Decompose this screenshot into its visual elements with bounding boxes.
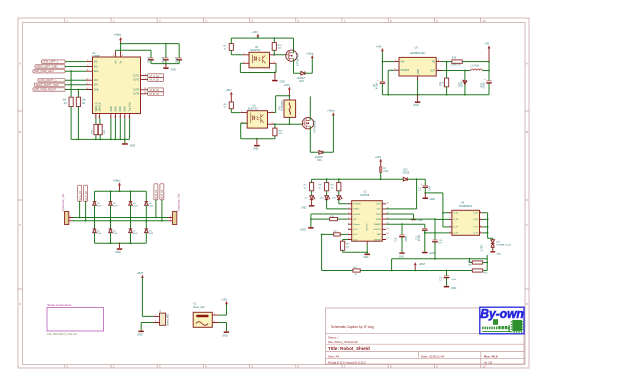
svg-text:1: 1: [241, 111, 242, 113]
svg-text:S_P2: S_P2: [453, 233, 459, 235]
svg-text:3: 3: [272, 123, 273, 125]
ground: [424, 193, 426, 197]
svg-text:GND: GND: [115, 251, 121, 254]
svg-text:STP36NF06: STP36NF06: [314, 119, 316, 133]
svg-text:CN3768: CN3768: [360, 194, 370, 197]
svg-text:PWM: PWM: [376, 219, 381, 221]
svg-text:OUT: OUT: [430, 70, 435, 72]
svg-text:EnA: EnA: [94, 70, 99, 73]
svg-text:10uF: 10uF: [429, 185, 431, 191]
capacitor C3: [177, 57, 182, 59]
junction: [366, 251, 368, 253]
svg-text:CHRG: CHRG: [353, 209, 359, 211]
svg-text:8: 8: [348, 238, 349, 240]
junction dots on rail: [78, 139, 80, 141]
ground: [422, 252, 427, 254]
ground: [119, 243, 121, 248]
connector J1: [65, 212, 69, 225]
svg-text:4: 4: [272, 111, 273, 113]
svg-text:R13: R13: [452, 57, 457, 59]
svg-text:1: 1: [145, 74, 146, 76]
junction: [442, 212, 444, 214]
svg-text:+BAT: +BAT: [419, 262, 426, 266]
svg-text:M_B_02: M_B_02: [160, 189, 164, 199]
resistor R9: [338, 179, 340, 182]
U3 gnd pin: [417, 76, 419, 80]
wire: [218, 304, 226, 315]
shunt resistor R3: [94, 124, 98, 134]
svg-text:FDS6690CZ: FDS6690CZ: [459, 205, 473, 208]
U1 top pins: [115, 51, 120, 57]
resistor R8: [326, 179, 328, 182]
wire: [230, 38, 232, 44]
wire top rail: [121, 44, 180, 58]
svg-text:Date: 2018-11-04: Date: 2018-11-04: [421, 354, 444, 358]
left edge row ticks: [18, 111, 23, 289]
junction: [434, 258, 436, 260]
svg-text:A: A: [526, 62, 528, 66]
global label M_A_02: [148, 78, 164, 82]
bottom rail wire: [95, 233, 147, 244]
connector J2: [173, 212, 177, 225]
BLOCK-CHARGER: [300, 155, 511, 290]
junction: [256, 138, 258, 140]
svg-text:D_P1: D_P1: [473, 227, 479, 229]
wire: [382, 51, 394, 81]
svg-text:1: 1: [449, 211, 450, 213]
ground: [138, 331, 143, 333]
wire: [96, 119, 100, 125]
BLOCK-BOTTOM: [47, 271, 229, 337]
BLOCK-OPTO1: [224, 30, 315, 84]
U1 bottom pin names: [95, 102, 132, 112]
svg-text:GND: GND: [418, 69, 420, 74]
power flag +24V: [379, 159, 382, 162]
junction dots: [326, 178, 328, 180]
wire row3 to gnd: [311, 214, 348, 227]
svg-text:4148: 4148: [149, 233, 153, 235]
wire: [323, 116, 334, 153]
svg-text:4148: 4148: [113, 233, 117, 235]
junction: [273, 54, 275, 56]
svg-text:3: 3: [348, 213, 349, 215]
diode D5: [95, 218, 147, 229]
power flag +VBus: [118, 182, 121, 185]
svg-text:M_B_01: M_B_01: [154, 189, 158, 199]
svg-text:CON_LEFT_1: CON_LEFT_1: [43, 61, 59, 64]
wire: [343, 250, 368, 252]
resistor R7: [310, 183, 314, 191]
svg-text:M_A_01: M_A_01: [150, 75, 160, 78]
wire: [65, 61, 87, 63]
svg-text:1: 1: [395, 60, 396, 62]
BLOCK-BRIDGE: [62, 179, 181, 254]
power flag +15V: [230, 92, 233, 95]
svg-text:POWER: POWER: [353, 204, 361, 206]
resistor R5: [229, 44, 233, 51]
U5 pins: [243, 55, 276, 64]
wire led D11 to pin: [339, 200, 348, 204]
motor rail 2: [73, 220, 168, 222]
wire pin4 up: [274, 96, 289, 113]
svg-text:14: 14: [144, 92, 146, 94]
svg-text:D15: D15: [299, 80, 304, 83]
svg-text:L1 47uH: L1 47uH: [470, 66, 479, 68]
vertical global label M_B_02: [160, 184, 164, 200]
svg-text:4: 4: [348, 218, 349, 220]
svg-text:C11: C11: [419, 186, 421, 191]
svg-text:Suspension_Ball: Suspension_Ball: [178, 193, 181, 211]
junction: [464, 70, 466, 72]
svg-text:5: 5: [480, 231, 481, 233]
svg-text:2: 2: [214, 321, 215, 323]
svg-text:GND: GND: [171, 68, 177, 71]
ground: [224, 331, 229, 333]
svg-text:+15V: +15V: [221, 297, 227, 301]
svg-text:4148: 4148: [133, 233, 137, 235]
U1 left pins: [87, 62, 93, 90]
inductor L1: [471, 69, 483, 70]
power flag +VBus: [332, 112, 335, 115]
svg-text:D_N1: D_N1: [473, 213, 479, 215]
wire: [274, 50, 286, 55]
svg-text:VCC: VCC: [377, 209, 382, 211]
svg-text:SENS_LEFT_GND: SENS_LEFT_GND: [36, 66, 57, 69]
svg-text:2: 2: [438, 69, 439, 71]
ground: [444, 286, 449, 288]
led D14 bicolor: [491, 240, 495, 251]
top rail wire: [95, 191, 147, 201]
shunt resistor R4: [98, 124, 102, 134]
svg-text:+24V: +24V: [283, 83, 289, 87]
U1 out pins: [141, 76, 147, 94]
svg-text:C15: C15: [396, 237, 398, 242]
global label M_B_01: [148, 88, 164, 92]
resistor R14: [470, 259, 473, 263]
svg-text:M_B_01: M_B_01: [150, 89, 160, 92]
svg-text:TVR10471: TVR10471: [282, 99, 284, 111]
vertical global label M_A_01: [78, 185, 82, 201]
svg-text:GND: GND: [363, 256, 369, 259]
wire: [141, 323, 153, 331]
ground on STAT row: [386, 214, 414, 219]
junction: [434, 218, 436, 220]
fuse F1: [380, 167, 382, 173]
wire U4 pin3: [443, 226, 449, 228]
U3 pins: [394, 62, 442, 71]
optocoupler U5 body: [249, 52, 270, 68]
K1 pins: [212, 315, 218, 322]
junction: [165, 43, 167, 45]
regulator U3 body: [399, 57, 436, 76]
wire source: [294, 59, 301, 74]
svg-text:SS210: SS210: [402, 173, 410, 175]
U4 right pins: [480, 213, 483, 233]
svg-text:470uF: 470uF: [419, 234, 421, 241]
svg-text:SENS_RIGHT_GND: SENS_RIGHT_GND: [36, 84, 59, 87]
svg-text:9: 9: [122, 55, 123, 57]
svg-text:4148: 4148: [149, 206, 153, 208]
top rail wire: [231, 37, 293, 39]
wire source: [310, 126, 319, 152]
U1 right pin names: [133, 76, 140, 96]
capacitor C1: [149, 57, 154, 59]
diode D7: [129, 229, 133, 233]
svg-text:Title: Robot_Shield: Title: Robot_Shield: [328, 346, 370, 351]
svg-text:+VIN: +VIN: [376, 44, 382, 48]
svg-text:SENS_A: SENS_A: [95, 102, 98, 112]
junction dots: [487, 219, 489, 221]
wire: [231, 50, 243, 55]
svg-text:4148: 4148: [133, 206, 137, 208]
junction: [70, 70, 72, 72]
svg-text:RV1: RV1: [279, 105, 281, 110]
svg-text:470uF: 470uF: [377, 82, 379, 89]
svg-text:D_P2: D_P2: [473, 233, 479, 235]
junction dots: [110, 190, 112, 192]
svg-text:S_N1: S_N1: [453, 213, 459, 215]
led D9: [311, 191, 313, 196]
wire: [155, 200, 157, 218]
svg-text:1: 1: [214, 314, 215, 316]
U1 bottom pin numbers: [95, 116, 131, 118]
U4 pin names: [453, 213, 459, 235]
diode D8: [145, 229, 149, 233]
svg-text:GND: GND: [125, 106, 127, 111]
diode D2: [109, 202, 113, 206]
svg-text:5: 5: [395, 69, 396, 71]
svg-text:GND: GND: [115, 106, 117, 111]
svg-text:SPD_PWM_RIGHT: SPD_PWM_RIGHT: [34, 89, 56, 92]
wire: [288, 117, 290, 124]
svg-text:VIN: VIN: [353, 219, 357, 221]
wire ON/OFF: [388, 70, 394, 95]
svg-text:1: 1: [348, 202, 349, 204]
wire: [446, 87, 448, 95]
svg-text:FB: FB: [432, 62, 435, 64]
capacitor C13: [422, 227, 427, 229]
FB wire: [442, 61, 452, 63]
wire cap bottoms: [151, 60, 179, 64]
svg-text:22uF: 22uF: [451, 279, 457, 281]
capacitor C11: [424, 179, 426, 185]
wire: [305, 58, 312, 73]
wire: [71, 107, 78, 140]
wire: [231, 109, 240, 113]
power flag +BAT: [141, 275, 144, 278]
svg-text:2: 2: [95, 116, 96, 118]
junction: [424, 232, 426, 234]
wire: [257, 136, 275, 139]
ground: [417, 95, 419, 102]
junction: [273, 37, 275, 39]
junction: [289, 95, 291, 97]
junction: [274, 123, 276, 125]
motor rail 1: [73, 217, 168, 219]
svg-text:Timer: Timer: [353, 239, 358, 241]
junction: [391, 270, 393, 272]
svg-text:OUT3: OUT3: [133, 90, 140, 92]
relay K1 body: [193, 312, 212, 327]
wire: [464, 85, 466, 95]
svg-text:+VBus: +VBus: [114, 33, 122, 37]
svg-text:Rev: V0.9: Rev: V0.9: [484, 354, 498, 358]
junction: [446, 61, 448, 63]
junction: [310, 218, 312, 220]
svg-text:Schematic Capture by JF xlog: Schematic Capture by JF xlog: [331, 325, 374, 329]
U2 gnd stem: [366, 241, 368, 244]
power flag +VBus: [119, 37, 122, 40]
svg-text:1: 1: [70, 219, 71, 221]
svg-text:3: 3: [145, 78, 146, 80]
svg-text:File: PROJECT_CON.sch: File: PROJECT_CON.sch: [47, 332, 77, 336]
resistor R16: [274, 124, 276, 128]
svg-text:+VBus: +VBus: [306, 51, 314, 55]
svg-text:PGSMB-COLA: PGSMB-COLA: [496, 244, 511, 247]
charger IC U2 body: [352, 201, 383, 242]
svg-text:Top_Pad: Top_Pad: [130, 102, 132, 112]
top rail wire: [312, 179, 426, 182]
wire R12 tap: [446, 62, 448, 79]
svg-text:1: 1: [244, 53, 245, 55]
wire opto bottom loop: [240, 63, 276, 72]
svg-text:By-own: By-own: [480, 307, 524, 321]
capacitor C8: [380, 80, 385, 82]
wire opto2 pin2 loop: [241, 123, 257, 139]
svg-text:10: 10: [86, 79, 88, 81]
svg-text:EnB: EnB: [94, 89, 99, 91]
resistor R11: [353, 269, 360, 272]
svg-text:1: 1: [170, 216, 171, 218]
resistor R6: [229, 102, 233, 109]
diode D6: [109, 229, 113, 233]
wire: [462, 61, 489, 63]
wire diode bottoms to rails: [95, 205, 147, 221]
ground: [311, 200, 313, 205]
bottom edge column ticks: [65, 365, 481, 369]
junction: [274, 72, 276, 74]
OUT wire: [442, 70, 490, 72]
global label M_A_01: [148, 74, 164, 78]
svg-text:S_P1: S_P1: [453, 227, 459, 229]
wire Vsense row to C13: [386, 224, 425, 228]
capacitor C14: [434, 219, 436, 240]
IC U1 body: [93, 57, 141, 114]
global label SENS_RIGHT_GND: [35, 83, 66, 86]
power flag +VIN: [381, 48, 384, 51]
resistor R12: [445, 78, 449, 87]
wire: [142, 278, 153, 317]
svg-text:EL817S1: EL817S1: [248, 107, 259, 110]
U2 right pins: [382, 204, 386, 240]
svg-text:Sheet: /: Sheet: /: [328, 336, 339, 340]
svg-text:1: 1: [155, 315, 156, 317]
ground: [122, 143, 128, 145]
svg-text:+15V: +15V: [252, 30, 258, 34]
svg-text:OUT4: OUT4: [133, 94, 140, 96]
svg-text:M_A_01: M_A_01: [78, 191, 82, 201]
svg-text:SENS_B: SENS_B: [100, 102, 102, 112]
svg-text:U3: U3: [415, 46, 419, 50]
TITLEBLOCK: [326, 307, 525, 364]
svg-text:2: 2: [170, 219, 171, 221]
svg-text:2: 2: [244, 62, 245, 64]
svg-text:GND: GND: [300, 228, 306, 231]
wire: [115, 44, 151, 58]
resistor R15: [272, 43, 276, 51]
diode D3: [129, 202, 133, 206]
wire drain: [293, 38, 295, 53]
svg-text:+5V: +5V: [485, 42, 490, 46]
svg-text:GND: GND: [222, 334, 228, 337]
top edge column ticks: [65, 18, 481, 23]
svg-text:GND: GND: [130, 145, 136, 148]
led D11: [338, 191, 340, 196]
bottom rail wire: [71, 138, 130, 140]
svg-text:4: 4: [449, 231, 450, 233]
junction: [424, 192, 426, 194]
wire: [380, 172, 382, 179]
wire: [65, 66, 87, 68]
svg-text:Reed_swh: Reed_swh: [193, 306, 205, 309]
wire: [65, 84, 87, 86]
wire: [71, 71, 78, 97]
svg-text:OUT1: OUT1: [133, 76, 140, 78]
optocoupler U6 body: [247, 111, 267, 128]
gate wire: [274, 123, 302, 125]
global label CON_LEFT_1: [42, 60, 66, 63]
ground: [165, 64, 167, 68]
svg-text:L2 4R7: L2 4R7: [481, 244, 483, 252]
svg-text:CHGOK: CHGOK: [353, 214, 361, 216]
title block outline: [326, 308, 525, 364]
connector J3: [160, 313, 166, 325]
svg-text:STAT: STAT: [376, 213, 382, 216]
ground: [364, 254, 370, 256]
svg-text:D12: D12: [404, 169, 409, 171]
svg-text:SS54: SS54: [461, 81, 463, 87]
svg-text:4148: 4148: [97, 206, 101, 208]
BLOCK-OPTO2: [0, 0, 1, 1]
BLOCK-U1: [33, 33, 182, 148]
resistor R10: [311, 218, 348, 220]
svg-text:M_A_02: M_A_02: [150, 79, 160, 82]
resistor R2: [76, 97, 80, 106]
power flag +5V: [488, 45, 491, 48]
svg-text:ON/OFF: ON/OFF: [401, 70, 410, 72]
sheet outer border: [18, 18, 529, 368]
global label SPD_PWM_LEFT: [33, 70, 65, 73]
svg-text:M_B_02: M_B_02: [150, 93, 160, 96]
BLOCK-REG: [374, 42, 492, 107]
resistor R17: [322, 233, 348, 235]
svg-text:SENSE: SENSE: [374, 239, 381, 241]
U1 left pin names: [94, 62, 99, 92]
svg-text:4: 4: [438, 60, 439, 62]
vertical global label M_B_01: [154, 184, 158, 200]
svg-text:4148: 4148: [113, 206, 117, 208]
mosfet pair U4 body: [452, 210, 480, 235]
junction: [289, 123, 291, 125]
sheet symbol Sheet Connectors: [47, 308, 104, 332]
svg-text:B: B: [526, 130, 528, 134]
svg-text:3: 3: [449, 225, 450, 227]
svg-text:4148: 4148: [97, 233, 101, 235]
svg-text:6: 6: [348, 228, 349, 230]
bottom rail wire: [382, 94, 489, 96]
wire: [96, 135, 100, 140]
wire drain: [309, 96, 311, 120]
